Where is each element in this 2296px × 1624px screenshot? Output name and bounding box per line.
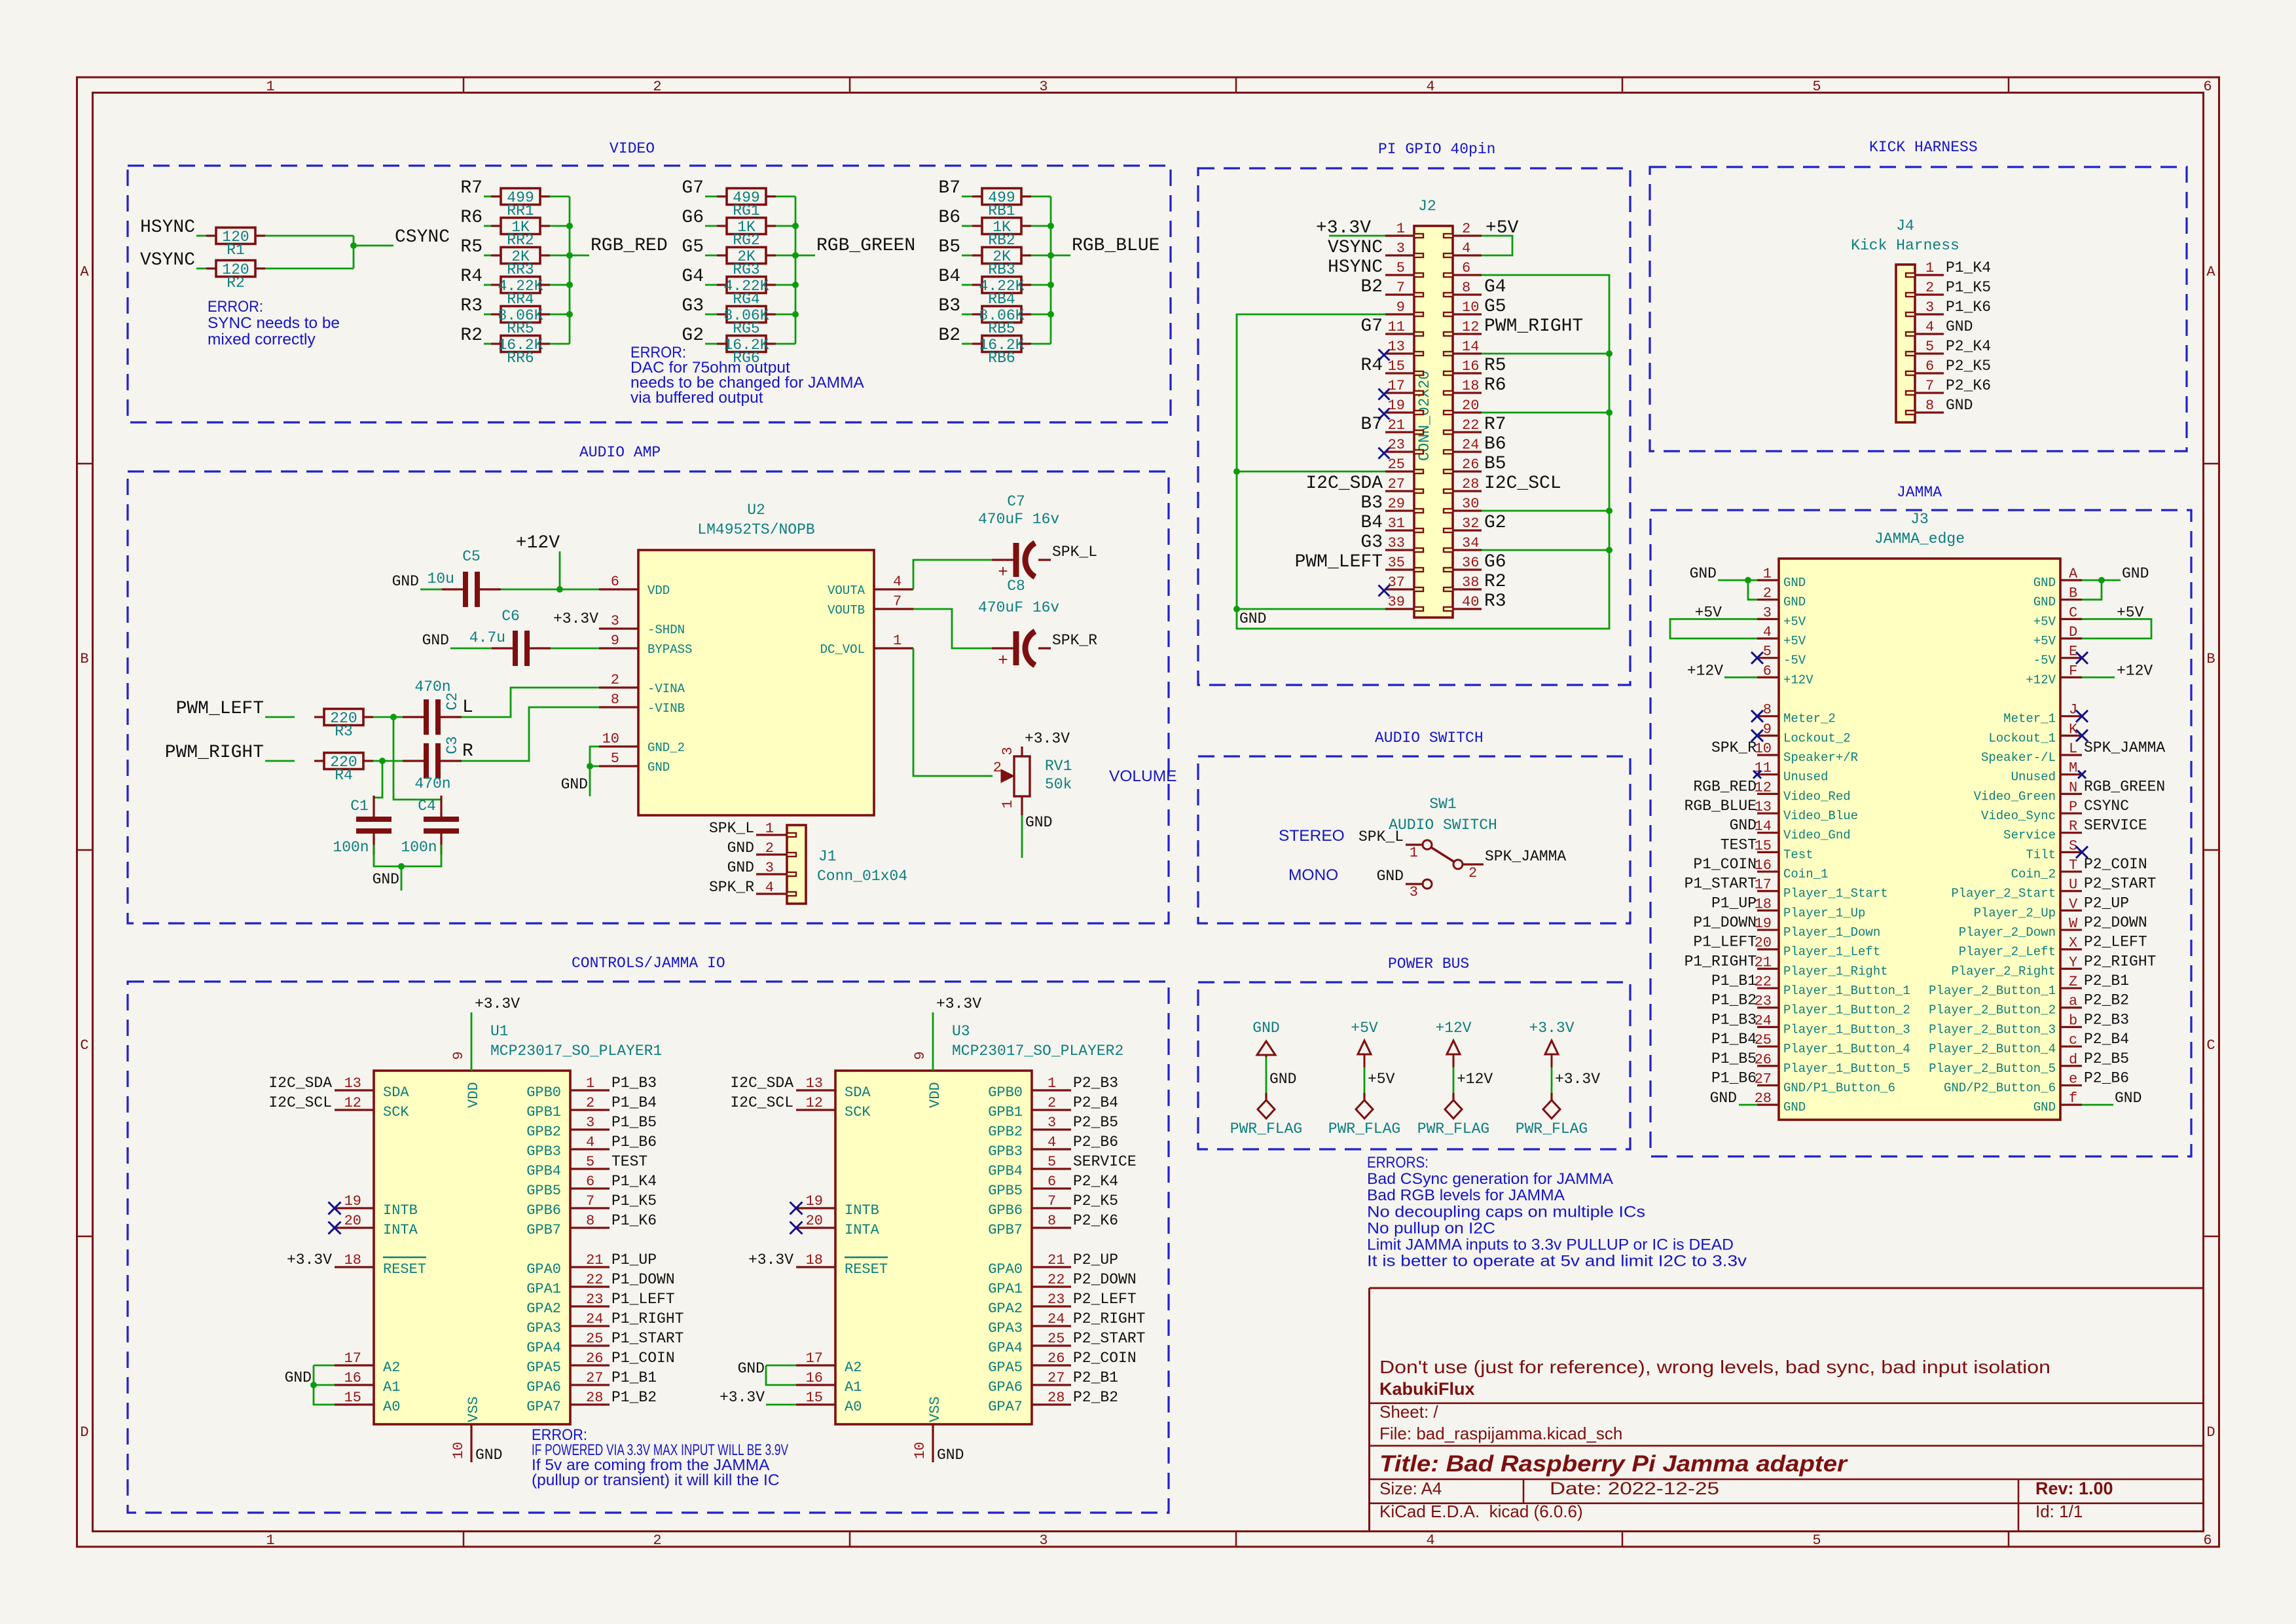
label P2_RIGHT: [2084, 953, 2156, 970]
svg-text:HSYNC: HSYNC: [140, 217, 195, 238]
svg-text:Player_1_Left: Player_1_Left: [1783, 945, 1880, 959]
svg-text:a: a: [2069, 993, 2077, 1010]
wire: [766, 1365, 796, 1385]
wire: [1237, 608, 1385, 610]
svg-text:+3.3V: +3.3V: [287, 1251, 332, 1268]
svg-text:Player_1_Right: Player_1_Right: [1783, 964, 1888, 978]
svg-text:Date: 2022-12-25: Date: 2022-12-25: [1550, 1479, 1719, 1498]
svg-text:KiCad E.D.A. kicad (6.0.6): KiCad E.D.A. kicad (6.0.6): [1379, 1502, 1583, 1521]
pin 3: [1385, 240, 1423, 257]
label P1_B3: [611, 1075, 657, 1092]
pin 30: [1444, 496, 1482, 513]
junction: [566, 311, 573, 318]
svg-text:P2_B4: P2_B4: [1073, 1094, 1118, 1111]
resistor RB6: [972, 336, 1031, 367]
pin 1 GPB0: [526, 1075, 610, 1101]
junction: [1233, 468, 1240, 475]
wire: [913, 609, 992, 648]
svg-text:8: 8: [611, 692, 619, 708]
svg-text:G3: G3: [682, 296, 704, 316]
svg-text:35: 35: [1388, 555, 1405, 571]
svg-text:P2_B5: P2_B5: [1073, 1114, 1118, 1131]
svg-text:I2C_SCL: I2C_SCL: [730, 1094, 793, 1111]
label B7: [1360, 415, 1383, 435]
wire: [1031, 284, 1051, 286]
svg-text:2: 2: [1468, 865, 1477, 881]
pin 11: [1385, 319, 1423, 336]
wire: [2082, 1104, 2113, 1106]
svg-text:5: 5: [1812, 1532, 1821, 1549]
svg-text:Speaker-/L: Speaker-/L: [1981, 750, 2056, 765]
svg-text:GPB2: GPB2: [988, 1124, 1023, 1140]
svg-text:5: 5: [1925, 339, 1934, 355]
svg-text:GPB3: GPB3: [526, 1143, 561, 1160]
svg-text:B: B: [2069, 585, 2077, 602]
svg-text:20: 20: [806, 1213, 823, 1229]
pin 18 RESET: [796, 1252, 888, 1278]
label G7: [1360, 316, 1383, 337]
pin 37: [1385, 574, 1423, 591]
svg-text:S: S: [2069, 838, 2077, 854]
svg-text:VDD: VDD: [927, 1082, 943, 1108]
label PWM_LEFT: [176, 699, 264, 719]
svg-text:9: 9: [450, 1051, 467, 1060]
title block id: [2035, 1502, 2083, 1521]
label P2_START: [2084, 876, 2156, 893]
svg-text:G2: G2: [1484, 513, 1506, 533]
pin 14 Video_Gnd: [1755, 819, 1851, 843]
label CSYNC: [2084, 798, 2129, 815]
junction: [1048, 223, 1054, 229]
wire: [373, 760, 382, 762]
svg-text:RGB_BLUE: RGB_BLUE: [1685, 798, 1757, 815]
svg-text:+5V: +5V: [2033, 614, 2056, 629]
label G3: [1360, 532, 1383, 553]
svg-text:9: 9: [912, 1051, 928, 1060]
pin 3 GPB2: [526, 1115, 610, 1140]
svg-text:8: 8: [1925, 397, 1934, 414]
svg-text:39: 39: [1388, 594, 1405, 610]
junction: [792, 311, 799, 318]
svg-text:+3.3V: +3.3V: [936, 995, 981, 1012]
CONTROLS/JAMMA IO section box: [128, 955, 1169, 1513]
label P1_B2: [1711, 992, 1757, 1009]
svg-text:KabukiFlux: KabukiFlux: [1379, 1379, 1475, 1399]
pin 9 VDD: [450, 1051, 482, 1108]
svg-text:X: X: [2069, 935, 2077, 951]
svg-text:12: 12: [806, 1095, 823, 1111]
label R2: [1484, 572, 1506, 592]
svg-text:21: 21: [1388, 417, 1405, 434]
wire: [1050, 196, 1052, 344]
svg-text:3: 3: [611, 613, 619, 629]
label P2_B2: [2084, 992, 2129, 1009]
svg-text:P2_K6: P2_K6: [1073, 1212, 1118, 1229]
pin B GND: [2033, 585, 2082, 610]
wire: [590, 747, 599, 796]
svg-text:Lockout_1: Lockout_1: [1988, 731, 2056, 745]
svg-text:A: A: [2069, 566, 2078, 582]
svg-text:GND: GND: [1377, 868, 1404, 885]
svg-text:3: 3: [1039, 1532, 1048, 1549]
svg-text:GND: GND: [2033, 595, 2056, 610]
pin e GND/P2_Button_6: [1944, 1071, 2082, 1095]
svg-text:22: 22: [1755, 974, 1772, 990]
svg-text:PWM_LEFT: PWM_LEFT: [1295, 552, 1383, 572]
svg-text:P1_DOWN: P1_DOWN: [611, 1271, 675, 1288]
title block tool: [1379, 1502, 1583, 1521]
pin 7 GPB6: [526, 1193, 610, 1219]
svg-text:VOUTA: VOUTA: [828, 583, 866, 598]
svg-text:GND: GND: [1946, 318, 1973, 335]
no-connect: [1751, 729, 1763, 741]
connector J2 CONN_02X20: [1414, 198, 1453, 618]
svg-text:PWR_FLAG: PWR_FLAG: [1328, 1120, 1400, 1137]
svg-text:AUDIO AMP: AUDIO AMP: [579, 444, 661, 461]
label P2_B2: [1073, 1389, 1118, 1406]
svg-text:P: P: [2069, 799, 2077, 815]
svg-text:20: 20: [1462, 397, 1479, 414]
label P1_K6: [1946, 299, 1991, 316]
label RGB_BLUE: [1072, 236, 1159, 256]
pin M Unused: [2011, 760, 2082, 784]
svg-text:4: 4: [1462, 240, 1470, 257]
junction: [1606, 507, 1613, 514]
svg-text:N: N: [2069, 779, 2077, 796]
svg-text:CONN_02X20: CONN_02X20: [1416, 371, 1433, 461]
pin 15 A0: [796, 1390, 862, 1415]
svg-text:B3: B3: [1360, 493, 1383, 513]
svg-text:+3.3V: +3.3V: [1025, 730, 1070, 747]
label P1_LEFT: [1693, 934, 1757, 951]
svg-text:Player_1_Button_4: Player_1_Button_4: [1783, 1042, 1910, 1056]
junction: [566, 252, 573, 259]
wire: [484, 343, 491, 345]
resistor RR2: [491, 218, 550, 249]
svg-text:22: 22: [586, 1272, 603, 1288]
label I2C_SCL: [268, 1094, 332, 1111]
pin 29: [1385, 496, 1423, 513]
svg-text:12: 12: [1462, 319, 1479, 335]
svg-text:7: 7: [1396, 280, 1405, 296]
note ERROR sync: [208, 298, 340, 348]
wire: [484, 314, 491, 316]
svg-text:SPK_R: SPK_R: [1711, 739, 1757, 756]
svg-text:29: 29: [1388, 496, 1405, 512]
junction: [792, 252, 799, 259]
wire: [484, 255, 491, 257]
svg-text:A0: A0: [845, 1399, 862, 1415]
svg-text:P1_DOWN: P1_DOWN: [1693, 914, 1757, 931]
wire: [374, 845, 441, 866]
label P1_RIGHT: [1685, 953, 1757, 970]
svg-text:B6: B6: [1484, 434, 1506, 454]
pin 28 GPA7: [988, 1390, 1071, 1415]
svg-text:Player_2_Button_1: Player_2_Button_1: [1929, 984, 2056, 998]
wire: [265, 716, 295, 718]
svg-text:G5: G5: [1484, 297, 1506, 317]
title block sheet: [1379, 1402, 1438, 1422]
resistor RB5: [972, 306, 1031, 338]
pin 11 Unused: [1755, 760, 1829, 784]
wire: [1482, 549, 1609, 551]
svg-text:P1_START: P1_START: [611, 1330, 683, 1347]
label P2_DOWN: [1073, 1271, 1137, 1288]
svg-text:INTA: INTA: [383, 1222, 418, 1238]
svg-text:I2C_SCL: I2C_SCL: [1484, 473, 1561, 494]
svg-text:+12V: +12V: [1783, 673, 1813, 687]
svg-text:GPB0: GPB0: [988, 1084, 1023, 1101]
svg-text:Player_2_Button_2: Player_2_Button_2: [1929, 1003, 2056, 1018]
svg-text:16: 16: [806, 1370, 823, 1386]
svg-text:1: 1: [893, 633, 902, 649]
label GND: [1025, 814, 1052, 831]
IC U3 MCP23017_SO_PLAYER2: [835, 1023, 1123, 1424]
svg-text:P2_RIGHT: P2_RIGHT: [2084, 953, 2156, 970]
svg-text:B4: B4: [938, 267, 960, 287]
wire: [550, 343, 570, 345]
svg-text:GND: GND: [2033, 1100, 2056, 1115]
junction: [1606, 409, 1613, 416]
wire: [2082, 619, 2151, 638]
svg-text:U1: U1: [490, 1023, 509, 1040]
svg-text:4: 4: [586, 1134, 594, 1151]
resistor RB2: [972, 218, 1031, 249]
pin 5 -5V: [1757, 644, 1806, 668]
wire: [196, 235, 206, 237]
svg-text:R5: R5: [1484, 356, 1506, 376]
svg-text:28: 28: [1048, 1390, 1065, 1406]
AUDIO SWITCH section box: [1198, 729, 1630, 923]
label P1_K4: [611, 1173, 657, 1190]
pin 19 INTB: [335, 1193, 418, 1219]
svg-text:GPA7: GPA7: [988, 1399, 1023, 1415]
svg-text:SCK: SCK: [383, 1104, 409, 1120]
svg-text:GPA1: GPA1: [988, 1281, 1023, 1297]
pin 7 GPB6: [988, 1193, 1071, 1219]
label +5V: [1695, 604, 1722, 621]
label P1_B1: [611, 1369, 657, 1386]
svg-text:GND: GND: [1025, 814, 1052, 831]
svg-text:24: 24: [1048, 1311, 1065, 1327]
title block company: [1379, 1379, 1475, 1399]
no-connect: [2076, 710, 2088, 722]
pin 34: [1444, 535, 1482, 552]
wire: [776, 255, 795, 257]
svg-text:7: 7: [1048, 1193, 1056, 1209]
label SPK_L: [1052, 544, 1097, 561]
svg-text:11: 11: [1388, 319, 1405, 335]
capacitor C7: [978, 493, 1059, 582]
wire: [1237, 471, 1385, 473]
capacitor C5: [428, 548, 501, 607]
svg-text:Video_Green: Video_Green: [1974, 789, 2056, 803]
svg-text:B3: B3: [938, 296, 960, 316]
svg-text:GND: GND: [727, 859, 754, 876]
svg-text:GPB1: GPB1: [988, 1104, 1023, 1120]
svg-text:C2: C2: [444, 692, 461, 710]
svg-text:21: 21: [586, 1252, 603, 1268]
pin 9: [1385, 299, 1423, 316]
no-connect: [1753, 771, 1761, 779]
pin 6: [1444, 260, 1482, 277]
title block frame: [1370, 1288, 2204, 1532]
label RGB_GREEN: [816, 236, 915, 256]
title block size: [1379, 1479, 1442, 1498]
svg-text:4: 4: [1426, 79, 1434, 95]
svg-text:100n: 100n: [401, 839, 437, 856]
pin R Service: [2003, 819, 2082, 843]
svg-text:25: 25: [1388, 456, 1405, 473]
label R3: [1484, 591, 1506, 612]
no-connect: [2076, 846, 2088, 858]
label P2_B3: [2084, 1011, 2129, 1028]
svg-text:PWM_RIGHT: PWM_RIGHT: [165, 743, 264, 763]
no-connect: [2078, 771, 2086, 779]
pin K Lockout_1: [1988, 721, 2082, 745]
svg-text:Tilt: Tilt: [2026, 847, 2056, 862]
no-connect: [1379, 389, 1390, 400]
label GND: [1946, 397, 1973, 414]
svg-text:P2_B6: P2_B6: [1073, 1134, 1118, 1151]
svg-text:B: B: [80, 651, 88, 667]
label R5: [460, 237, 483, 257]
svg-text:JAMMA: JAMMA: [1897, 484, 1942, 501]
pin 4: [1444, 240, 1482, 257]
svg-text:BYPASS: BYPASS: [647, 642, 692, 657]
svg-text:-VINB: -VINB: [647, 701, 685, 716]
pin 1: [1385, 221, 1423, 238]
pin 21 GPA0: [526, 1252, 610, 1278]
svg-text:G3: G3: [1360, 532, 1383, 553]
svg-text:P1_LEFT: P1_LEFT: [611, 1291, 675, 1308]
svg-text:SYNC needs to be: SYNC needs to be: [208, 314, 340, 332]
label P1_B5: [1711, 1050, 1757, 1067]
pin 36: [1444, 555, 1482, 572]
svg-text:Kick Harness: Kick Harness: [1851, 237, 1959, 254]
no-connect: [790, 1222, 803, 1234]
svg-text:1: 1: [266, 1532, 274, 1549]
pin 12: [1444, 319, 1482, 336]
label G4: [682, 267, 704, 287]
label G3: [682, 296, 704, 316]
svg-text:GND_2: GND_2: [647, 741, 685, 755]
pin W Player_2_Down: [1959, 915, 2082, 940]
label P2_LEFT: [1073, 1291, 1137, 1308]
wire: [1051, 255, 1070, 257]
wire: [962, 255, 972, 257]
svg-text:R6: R6: [460, 208, 483, 228]
wire: [776, 314, 795, 316]
svg-text:Player_1_Button_3: Player_1_Button_3: [1783, 1022, 1910, 1037]
svg-text:F: F: [2069, 663, 2077, 679]
wire: [462, 707, 599, 761]
svg-text:+3.3V: +3.3V: [748, 1251, 793, 1268]
label P2_UP: [2084, 895, 2129, 912]
wire: [373, 716, 393, 718]
pin 10 VSS: [912, 1396, 943, 1462]
svg-text:12: 12: [344, 1095, 361, 1111]
svg-text:C5: C5: [462, 548, 481, 565]
pin b Player_2_Button_3: [1929, 1012, 2082, 1037]
op-amp U2 LM4952TS/NOPB: [599, 502, 913, 815]
svg-text:28: 28: [586, 1390, 603, 1406]
svg-text:Player_1_Button_5: Player_1_Button_5: [1783, 1061, 1910, 1076]
svg-text:G7: G7: [1360, 316, 1383, 337]
svg-text:RESET: RESET: [845, 1261, 888, 1278]
svg-text:GND: GND: [1783, 595, 1806, 610]
svg-text:GPA5: GPA5: [526, 1359, 561, 1376]
svg-text:JAMMA_edge: JAMMA_edge: [1874, 530, 1965, 547]
svg-text:L: L: [462, 697, 473, 718]
svg-text:MONO: MONO: [1288, 866, 1338, 884]
pin 16: [1444, 358, 1482, 375]
svg-text:14: 14: [1755, 819, 1772, 835]
svg-text:RR6: RR6: [507, 350, 534, 367]
svg-text:+12V: +12V: [1687, 662, 1723, 679]
svg-text:10u: 10u: [428, 570, 454, 587]
wire: [962, 196, 972, 198]
svg-text:Player_2_Button_5: Player_2_Button_5: [1929, 1061, 2056, 1076]
svg-text:P1_UP: P1_UP: [1711, 895, 1757, 912]
junction: [1745, 577, 1751, 583]
wire: [551, 648, 599, 650]
resistor RB3: [972, 248, 1031, 279]
label P1_K6: [611, 1212, 657, 1229]
svg-text:8: 8: [1763, 702, 1772, 718]
wire: [776, 284, 795, 286]
svg-text:P2_COIN: P2_COIN: [2084, 856, 2147, 873]
pin 39: [1385, 594, 1423, 611]
label P1_COIN: [1693, 856, 1757, 873]
wire: [1748, 580, 1757, 600]
svg-text:L: L: [2069, 741, 2077, 757]
power flag PWR_FLAG: [1328, 1093, 1400, 1137]
pin 13 Video_Blue: [1755, 799, 1858, 823]
label +12V: [2117, 662, 2153, 679]
svg-text:Sheet: /: Sheet: /: [1379, 1402, 1438, 1422]
svg-text:25: 25: [1048, 1331, 1065, 1347]
svg-text:ERRORS:: ERRORS:: [1367, 1154, 1429, 1172]
svg-text:HSYNC: HSYNC: [1328, 257, 1383, 278]
svg-text:J2: J2: [1418, 198, 1436, 215]
pin F +12V: [2026, 663, 2082, 687]
svg-text:5: 5: [1396, 260, 1405, 276]
pin 16 A1: [335, 1370, 400, 1395]
svg-text:W: W: [2069, 915, 2078, 932]
svg-text:P1_K5: P1_K5: [611, 1192, 657, 1209]
svg-text:2: 2: [1763, 585, 1772, 602]
pin 15: [1385, 358, 1423, 375]
svg-text:37: 37: [1388, 574, 1405, 591]
wire: [550, 284, 570, 286]
resistor RB4: [972, 277, 1031, 308]
label P1_K4: [1946, 259, 1991, 276]
svg-text:10: 10: [602, 731, 619, 747]
wire: [462, 688, 599, 717]
svg-text:e: e: [2069, 1071, 2077, 1087]
svg-text:16: 16: [344, 1370, 361, 1386]
wire: [1031, 343, 1051, 345]
pin 22 GPA1: [988, 1272, 1071, 1297]
svg-text:23: 23: [1755, 993, 1772, 1010]
svg-text:+5V: +5V: [1351, 1020, 1378, 1037]
svg-text:15: 15: [1388, 358, 1405, 375]
label B2: [938, 325, 960, 346]
label +5V: [2117, 604, 2144, 621]
label G5: [682, 237, 704, 257]
svg-text:INTB: INTB: [383, 1202, 418, 1219]
